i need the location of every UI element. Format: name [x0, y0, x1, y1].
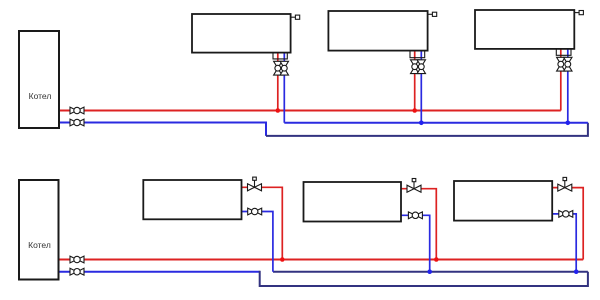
radiator B3 body [454, 181, 552, 221]
radiator A2 supply valve (vertical) [411, 60, 419, 74]
boiler supply valve (bottom system) [70, 256, 84, 263]
boiler return valve (top system) [70, 119, 84, 126]
junction dot: supply / radiator A1 [276, 108, 281, 113]
boiler supply valve (top system) [70, 107, 84, 114]
radiator A3 return riser (blue) [567, 49, 569, 123]
radiator A1 bottom connection bracket [273, 53, 287, 59]
supply pipe (red main) from boiler to radiator 3 [59, 110, 561, 112]
junction dot: supply / radiator A2 [412, 108, 417, 113]
junction dot: supply / radiator B2 [434, 257, 439, 262]
supply pipe (red main) from boiler to radiator 3 [59, 259, 584, 261]
svg-text:Котел: Котел [28, 240, 51, 250]
radiator B3 thermostatic valve [558, 177, 572, 191]
radiator B1 return valve [248, 208, 262, 215]
radiator A3 body [475, 10, 574, 49]
radiator B2 return branch (blue) [401, 215, 430, 271]
radiator A2 air vent [428, 12, 437, 16]
boiler (top system) [19, 31, 59, 128]
return pipe from boiler (bright segment) [59, 123, 266, 136]
boiler (bottom system) [19, 180, 59, 280]
radiator B1 supply branch (red) [242, 187, 283, 259]
junction dot: supply / radiator B1 [280, 257, 285, 262]
radiator B2 supply branch (red) [401, 189, 436, 260]
radiator A1 supply riser (red) [277, 53, 279, 111]
radiator B1 body [143, 180, 241, 219]
junction dot: return collector / radiator A2 [419, 121, 424, 126]
radiator A3 supply valve (vertical) [557, 57, 565, 71]
radiator B2 return valve [408, 212, 422, 219]
radiator B3 supply branch (red) [552, 188, 583, 260]
boiler return valve (bottom system) [70, 268, 84, 275]
radiator A3 supply riser (red) [560, 49, 562, 111]
radiator A2 return riser (blue) [420, 51, 422, 123]
radiator B1 thermostatic valve [248, 177, 262, 191]
return pipe from boiler (bright segment) [59, 271, 260, 273]
return collector pipe (navy) [273, 271, 588, 273]
radiator A3 air vent [574, 11, 583, 15]
junction dot: return collector / radiator B3 [574, 269, 579, 274]
junction dot: return collector / radiator B2 [427, 269, 432, 274]
svg-text:Котел: Котел [29, 91, 52, 101]
radiator A2 body [328, 11, 427, 51]
radiator A1 return valve (vertical) [280, 61, 288, 75]
return pipe lower run (dark navy) stepping down and to far right [260, 271, 588, 286]
radiator B2 body [304, 182, 402, 222]
radiator A1 return riser (blue) [283, 53, 285, 123]
return collector pipe over radiators [284, 122, 588, 124]
radiator A1 body [192, 14, 291, 53]
radiator A3 bottom connection bracket [556, 49, 571, 55]
junction dot: return collector / radiator A3 [566, 121, 571, 126]
radiator A1 supply valve (vertical) [274, 61, 282, 75]
radiator A2 return valve (vertical) [417, 60, 425, 74]
radiator B1 return branch (blue) [242, 212, 273, 272]
radiator A3 return valve (vertical) [564, 57, 572, 71]
radiator B3 return valve [559, 211, 573, 218]
radiator B2 thermostatic valve [407, 179, 421, 193]
radiator A2 supply riser (red) [414, 51, 416, 111]
radiator B3 return branch (blue) [552, 214, 576, 272]
radiator A1 air vent [291, 15, 300, 19]
return pipe lower run (dark navy) stepping down and to far right [266, 123, 588, 136]
radiator A2 bottom connection bracket [410, 51, 425, 58]
